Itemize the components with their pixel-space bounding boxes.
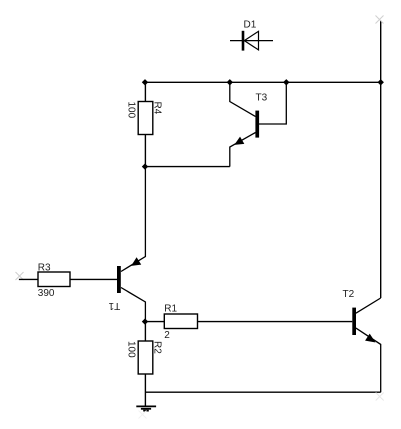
svg-text:2: 2: [164, 330, 170, 341]
wire T3 base: [259, 82, 286, 124]
resistor R3: [38, 272, 70, 287]
junction dot at R4 bottom node: [142, 163, 148, 169]
wire R1 right lead / T2 base: [198, 321, 353, 323]
wire R3 left lead: [19, 278, 38, 280]
svg-text:100: 100: [125, 341, 136, 358]
wire R2 bottom lead: [144, 374, 146, 406]
ground: [136, 406, 156, 410]
wire R3 right lead / T1 base: [70, 278, 117, 280]
resistor R1: [164, 314, 197, 329]
transistor T2: [352, 308, 374, 342]
svg-text:T3: T3: [256, 93, 268, 104]
wire T3 emitter: [230, 133, 256, 167]
open pin x bottom right: [376, 393, 384, 401]
svg-text:100: 100: [125, 102, 136, 119]
svg-text:T1: T1: [108, 300, 120, 311]
svg-text:390: 390: [38, 288, 55, 299]
wire T1 collector: [121, 288, 145, 322]
svg-text:R1: R1: [164, 304, 177, 315]
wire right rail upper: [380, 21, 382, 299]
svg-text:R3: R3: [38, 263, 51, 274]
diode D1: [230, 31, 273, 51]
svg-text:T2: T2: [343, 289, 355, 300]
wire R4 top lead: [144, 82, 146, 101]
svg-text:R4: R4: [151, 102, 162, 115]
junction dot at right rail top corner: [378, 79, 384, 85]
open pin x left: [16, 272, 24, 280]
resistor R4: [138, 102, 153, 135]
wire R4 bottom lead: [144, 135, 146, 167]
transistor T3: [235, 111, 259, 145]
wire mid horizontal: [145, 166, 230, 168]
svg-text:D1: D1: [244, 20, 257, 31]
wire T3 collector: [230, 82, 256, 116]
junction dot at T3 base on rail: [283, 79, 289, 85]
wire T2 collector: [356, 298, 381, 313]
svg-text:R2: R2: [151, 341, 162, 354]
resistor R2: [138, 341, 153, 374]
wire bottom rail: [145, 391, 381, 393]
open pin x top right: [376, 16, 384, 24]
junction dot at T3 collector on rail: [227, 79, 233, 85]
wire T1 emitter: [121, 167, 145, 272]
wire R2 top lead: [144, 322, 146, 341]
open pin x below ground: [139, 411, 147, 419]
junction dot at R4 top: [142, 79, 148, 85]
transistor T1: [117, 258, 140, 293]
wire top rail: [145, 81, 381, 83]
wire R1 left lead: [145, 321, 164, 323]
junction dot at R1/R2/T1 node: [142, 318, 148, 324]
wire T2 emitter: [356, 328, 381, 392]
